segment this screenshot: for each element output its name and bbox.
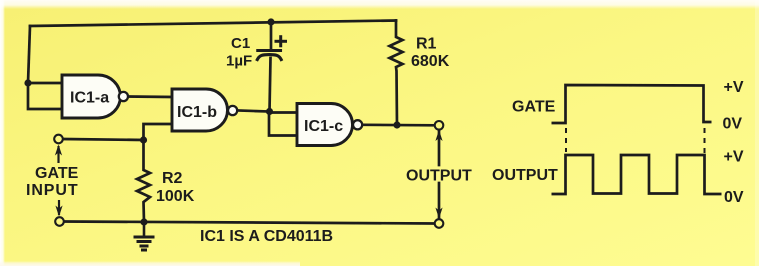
arrow gate input up [55, 145, 62, 164]
svg-text:+V: +V [724, 79, 744, 96]
capacitor C1 top stem [270, 22, 273, 49]
svg-text:100K: 100K [156, 188, 195, 205]
wire IC1-a input tie [28, 83, 62, 109]
svg-text:0V: 0V [724, 189, 744, 206]
svg-text:GATE: GATE [512, 99, 556, 116]
svg-text:R1: R1 [416, 36, 437, 53]
wire IC1-c upper input [270, 111, 298, 114]
waveform GATE [552, 85, 712, 123]
wire output terminal link [438, 131, 441, 165]
ground [134, 222, 155, 250]
dashed timing line left [565, 128, 567, 152]
wire IC1-a upper input [28, 82, 62, 85]
label C1 polarity [275, 35, 288, 47]
svg-text:R2: R2 [162, 170, 183, 187]
resistor R2 [137, 140, 150, 222]
svg-text:IC1-a: IC1-a [70, 90, 109, 107]
terminal gate input top [54, 135, 63, 144]
dashed timing line right [704, 128, 706, 153]
svg-text:680K: 680K [411, 53, 450, 70]
wire bottom rail [64, 222, 435, 224]
wire gate input line [63, 139, 144, 140]
gate IC1-c [297, 104, 362, 146]
svg-text:0V: 0V [723, 116, 743, 133]
terminal gate input bottom [55, 217, 64, 226]
svg-text:IC1-c: IC1-c [304, 118, 343, 135]
wire IC1-b output [238, 111, 270, 112]
wire IC1-a output to IC1-b [127, 95, 172, 98]
svg-text:OUTPUT: OUTPUT [492, 167, 558, 184]
node R2 bottom junction [140, 218, 147, 225]
waveform OUTPUT [552, 155, 722, 194]
node IC1-b output junction [266, 108, 273, 115]
gate IC1-a [62, 75, 128, 118]
svg-text:GATE: GATE [35, 165, 79, 182]
wire top rail [30, 21, 396, 27]
svg-text:IC1 IS A CD4011B: IC1 IS A CD4011B [200, 228, 333, 245]
resistor R1 [390, 21, 403, 126]
svg-text:OUTPUT: OUTPUT [406, 168, 472, 185]
wire IC1-c output [363, 123, 435, 126]
node C1 top junction [267, 18, 274, 25]
arrow gate input down [55, 200, 62, 217]
svg-text:C1: C1 [231, 35, 250, 52]
wire left vertical [28, 26, 30, 83]
arrow output down [435, 208, 442, 219]
capacitor C1 bottom stem [270, 58, 271, 112]
node output junction [393, 121, 400, 128]
capacitor C1 plates [257, 51, 281, 60]
terminal output top [435, 121, 444, 130]
node IC1-a input junction [24, 79, 31, 86]
arrow output up [435, 130, 442, 141]
svg-text:INPUT: INPUT [26, 182, 79, 199]
gate IC1-b [172, 89, 237, 131]
svg-text:+V: +V [724, 149, 744, 166]
node R2 top junction [140, 136, 147, 143]
svg-text:1µF: 1µF [226, 53, 252, 70]
svg-text:IC1-b: IC1-b [177, 104, 217, 121]
wire IC1-c lower input tie [269, 112, 297, 136]
terminal output bottom [435, 219, 444, 228]
wire IC1-b lower input [144, 124, 173, 140]
